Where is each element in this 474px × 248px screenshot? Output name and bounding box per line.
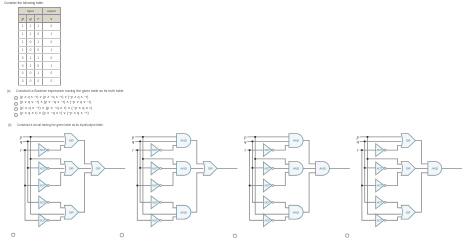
wire r vertical to NOT5 input <box>250 150 264 220</box>
circuit option 3 <box>233 134 350 238</box>
wire NOT2 output to gate2 <box>49 167 64 169</box>
wire NOT3 output to gate2 <box>386 172 401 185</box>
svg-text:NOT: NOT <box>40 166 46 170</box>
NOT gate 4 <box>151 196 159 209</box>
svg-text:NOT: NOT <box>377 166 383 170</box>
svg-text:AND: AND <box>179 167 187 171</box>
wire r branch to NOT3 input <box>250 185 264 187</box>
svg-text:NOT: NOT <box>264 200 270 204</box>
heading: Consider the following table. <box>4 1 44 5</box>
wire r branch to NOT3 input <box>362 185 376 187</box>
node r branch junction <box>249 185 251 187</box>
wire gate3 output to final gate <box>79 173 92 212</box>
node r junction <box>249 149 251 151</box>
circuit option 2 <box>120 134 237 237</box>
wire r to NOT1 <box>360 149 376 151</box>
wire NOT1 output to gate1 <box>274 145 289 150</box>
wire NOT3 output to gate2 <box>274 172 289 185</box>
wire p to gate1 <box>247 136 289 138</box>
svg-text:NOT: NOT <box>40 184 46 188</box>
wire gate2 output to final gate <box>303 167 316 169</box>
wire q vertical to NOT4 input <box>365 141 376 202</box>
radio button choice 3 <box>233 234 236 237</box>
wire p vertical to gate3 direct input <box>368 137 402 214</box>
wire NOT3 output to gate2 <box>49 172 64 185</box>
wire NOT2 output to gate2 <box>162 167 177 169</box>
svg-text:NOT: NOT <box>377 184 383 188</box>
wire q to gate1 <box>360 140 402 142</box>
radio button choice 4 <box>346 234 349 237</box>
final OR gate <box>203 162 217 176</box>
wire r vertical to NOT5 input <box>137 150 151 220</box>
part (b) prompt <box>17 124 104 128</box>
wire gate2 output to final gate <box>79 167 92 169</box>
node q junction <box>27 140 29 142</box>
wire q branch to NOT2 input <box>140 167 151 169</box>
wire NOT2 output to gate2 <box>386 167 401 169</box>
node q branch junction <box>27 167 29 169</box>
wire circuit output <box>105 167 125 169</box>
svg-text:NOT: NOT <box>152 184 158 188</box>
wire q vertical to NOT4 input <box>140 141 151 202</box>
svg-text:OR: OR <box>69 139 74 143</box>
svg-text:NOT: NOT <box>40 218 46 222</box>
node p junction <box>142 136 144 138</box>
node q junction <box>364 140 366 142</box>
wire p to gate1 <box>135 136 177 138</box>
NOT gate 4 <box>376 196 384 209</box>
wire NOT4 output to gate3 <box>162 202 177 208</box>
OR gate 3 <box>401 205 415 219</box>
svg-text:q: q <box>20 139 23 144</box>
wire gate2 output to final gate <box>415 167 428 169</box>
radio option 4 <box>14 113 18 117</box>
NOT gate 1 <box>263 144 271 157</box>
wire NOT2 output to gate2 <box>274 167 289 169</box>
NOT gate 2 <box>39 162 47 175</box>
wire r to NOT1 <box>247 149 263 151</box>
svg-text:NOT: NOT <box>377 200 383 204</box>
node q junction <box>139 140 141 142</box>
svg-text:NOT: NOT <box>264 166 270 170</box>
svg-text:NOT: NOT <box>152 218 158 222</box>
wire NOT5 output to gate3 <box>49 217 64 220</box>
wire p to gate1 <box>360 136 402 138</box>
wire NOT1 output to gate1 <box>162 145 177 150</box>
node p branch junction <box>142 158 144 160</box>
NOT gate 1 <box>39 144 47 157</box>
svg-text:q: q <box>357 139 360 144</box>
svg-text:OR: OR <box>69 167 74 171</box>
wire gate3 output to final gate <box>415 173 428 212</box>
svg-text:r: r <box>132 148 134 153</box>
svg-text:AND: AND <box>292 210 300 214</box>
wire NOT1 output to gate1 <box>386 145 401 150</box>
node q junction <box>251 140 253 142</box>
wire q to gate1 <box>135 140 177 142</box>
wire NOT3 output to gate2 <box>162 172 177 185</box>
svg-text:AND: AND <box>179 139 187 143</box>
option 3 formula <box>20 107 92 111</box>
OR gate 1 <box>401 134 415 148</box>
OR gate 2 <box>64 162 78 176</box>
NOT gate 4 <box>39 196 47 209</box>
final AND gate <box>316 162 330 176</box>
radio option 2 <box>14 102 18 106</box>
wire NOT5 output to gate3 <box>162 217 177 220</box>
svg-text:NOT: NOT <box>152 166 158 170</box>
svg-text:AND: AND <box>179 210 187 214</box>
circuit option 1 <box>12 134 126 237</box>
part (b) label <box>8 124 11 128</box>
node p branch junction <box>30 158 32 160</box>
wire gate1 output to final gate <box>303 141 316 164</box>
NOT gate 1 <box>151 144 159 157</box>
svg-text:OR: OR <box>208 167 213 171</box>
part (a) label <box>7 90 10 94</box>
node r junction <box>361 149 363 151</box>
NOT gate 5 <box>376 214 384 227</box>
wire gate1 output to final gate <box>79 141 92 164</box>
AND gate 2 <box>289 162 303 176</box>
radio option 3 <box>14 107 18 111</box>
svg-text:OR: OR <box>406 210 411 214</box>
svg-text:AND: AND <box>292 167 300 171</box>
node q branch junction <box>251 167 253 169</box>
wire r branch to NOT3 input <box>25 185 39 187</box>
wire p branch to gate2 direct input <box>31 159 65 164</box>
OR gate 3 <box>64 205 78 219</box>
option 2 formula <box>20 101 91 105</box>
wire p vertical to gate3 direct input <box>143 137 177 214</box>
NOT gate 2 <box>151 162 159 175</box>
NOT gate 3 <box>376 179 384 192</box>
wire q to gate1 <box>23 140 65 142</box>
wire p branch to gate2 direct input <box>368 159 402 164</box>
wire q vertical to NOT4 input <box>28 141 39 202</box>
svg-text:NOT: NOT <box>264 184 270 188</box>
radio option 1 <box>14 96 18 100</box>
wire NOT4 output to gate3 <box>274 202 289 208</box>
NOT gate 5 <box>263 214 271 227</box>
svg-text:r: r <box>357 148 359 153</box>
NOT gate 1 <box>376 144 384 157</box>
svg-text:OR: OR <box>96 167 101 171</box>
wire q branch to NOT2 input <box>365 167 376 169</box>
AND gate 1 <box>177 134 191 148</box>
radio button choice 2 <box>120 234 123 237</box>
NOT gate 3 <box>263 179 271 192</box>
part (a) prompt <box>16 90 124 94</box>
wire p vertical to gate3 direct input <box>255 137 289 214</box>
NOT gate 2 <box>376 162 384 175</box>
NOT gate 3 <box>39 179 47 192</box>
svg-text:OR: OR <box>406 139 411 143</box>
wire gate1 output to final gate <box>191 141 204 164</box>
AND gate 2 <box>177 162 191 176</box>
wire gate3 output to final gate <box>191 173 204 212</box>
node r branch junction <box>136 185 138 187</box>
node r junction <box>24 149 26 151</box>
svg-text:q: q <box>132 139 135 144</box>
wire circuit output <box>217 167 237 169</box>
NOT gate 3 <box>151 179 159 192</box>
wire r vertical to NOT5 input <box>362 150 376 220</box>
svg-text:NOT: NOT <box>40 200 46 204</box>
OR gate 1 <box>64 134 78 148</box>
truth table <box>18 7 61 86</box>
svg-text:OR: OR <box>69 210 74 214</box>
AND gate 1 <box>289 134 303 148</box>
wire q to gate1 <box>247 140 289 142</box>
wire r branch to NOT3 input <box>137 185 151 187</box>
wire NOT4 output to gate3 <box>49 202 64 208</box>
option 4 formula <box>20 112 89 116</box>
wire circuit output <box>442 167 462 169</box>
wire r to NOT1 <box>135 149 151 151</box>
node p junction <box>254 136 256 138</box>
svg-text:NOT: NOT <box>264 148 270 152</box>
wire q branch to NOT2 input <box>28 167 39 169</box>
wire circuit output <box>329 167 349 169</box>
AND gate 3 <box>289 205 303 219</box>
radio button choice 1 <box>12 233 15 236</box>
svg-text:r: r <box>20 148 22 153</box>
svg-text:NOT: NOT <box>264 218 270 222</box>
node p branch junction <box>254 158 256 160</box>
svg-text:AND: AND <box>431 167 439 171</box>
svg-text:NOT: NOT <box>40 148 46 152</box>
node r junction <box>136 149 138 151</box>
wire p vertical to gate3 direct input <box>31 137 65 214</box>
final OR gate <box>91 162 105 176</box>
OR gate 2 <box>401 162 415 176</box>
NOT gate 5 <box>151 214 159 227</box>
wire r to NOT1 <box>23 149 39 151</box>
circuit option 4 <box>346 134 463 238</box>
NOT gate 4 <box>263 196 271 209</box>
NOT gate 2 <box>263 162 271 175</box>
svg-text:NOT: NOT <box>152 200 158 204</box>
svg-text:NOT: NOT <box>377 148 383 152</box>
wire NOT5 output to gate3 <box>386 217 401 220</box>
node q branch junction <box>139 167 141 169</box>
wire r vertical to NOT5 input <box>25 150 39 220</box>
node r branch junction <box>24 185 26 187</box>
node q branch junction <box>364 167 366 169</box>
wire q branch to NOT2 input <box>252 167 263 169</box>
svg-text:OR: OR <box>406 167 411 171</box>
wire NOT1 output to gate1 <box>49 145 64 150</box>
wire gate2 output to final gate <box>191 167 204 169</box>
wire NOT4 output to gate3 <box>386 202 401 208</box>
svg-text:q: q <box>244 139 247 144</box>
svg-text:AND: AND <box>318 167 326 171</box>
wire p branch to gate2 direct input <box>255 159 289 164</box>
wire NOT5 output to gate3 <box>274 217 289 220</box>
node r branch junction <box>361 185 363 187</box>
node p junction <box>30 136 32 138</box>
svg-text:r: r <box>245 148 247 153</box>
wire gate3 output to final gate <box>303 173 316 212</box>
wire q vertical to NOT4 input <box>252 141 263 202</box>
wire p branch to gate2 direct input <box>143 159 177 164</box>
NOT gate 5 <box>39 214 47 227</box>
svg-text:NOT: NOT <box>152 148 158 152</box>
option 1 formula <box>20 96 88 100</box>
node p junction <box>367 136 369 138</box>
AND gate 3 <box>177 205 191 219</box>
wire p to gate1 <box>23 136 65 138</box>
node p branch junction <box>367 158 369 160</box>
svg-text:AND: AND <box>292 139 300 143</box>
wire gate1 output to final gate <box>415 141 428 164</box>
svg-text:NOT: NOT <box>377 218 383 222</box>
final AND gate <box>428 162 442 176</box>
